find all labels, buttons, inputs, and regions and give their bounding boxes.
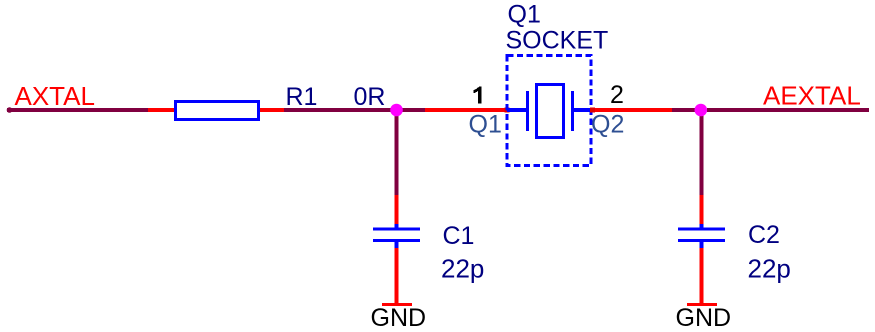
wire: segment into node A <box>284 108 394 112</box>
pin end dot, socket pin 2 <box>590 108 595 113</box>
svg-text:GND: GND <box>676 304 732 332</box>
crystal lead left <box>507 108 527 112</box>
capacitor C2 stub top <box>700 224 704 228</box>
svg-text:22p: 22p <box>748 254 791 284</box>
pin 1 of crystal socket Q1 <box>425 108 507 112</box>
junction node B <box>695 104 708 117</box>
capacitor C1 plate top <box>373 228 420 231</box>
capacitor C1 stub top <box>395 224 399 228</box>
svg-text:C1: C1 <box>443 222 475 250</box>
capacitor C2 plate bottom <box>678 239 725 242</box>
capacitor C2 stub bottom <box>700 242 704 248</box>
wire: AXTAL net, left segment <box>7 108 148 112</box>
pin end dot, socket pin 1 <box>505 108 510 113</box>
pin 1 of capacitor C1 <box>395 195 399 226</box>
wire: node B down <box>700 112 704 195</box>
svg-text:2: 2 <box>610 81 624 109</box>
crystal electrode right <box>571 91 574 131</box>
svg-text:0R: 0R <box>354 83 386 111</box>
resistor R1 body <box>176 102 259 120</box>
wire: node A down <box>395 112 399 195</box>
socket outline (dashed box) <box>507 56 591 166</box>
svg-text:Q2: Q2 <box>591 111 624 139</box>
capacitor C1 stub bottom <box>395 242 399 248</box>
pin 2 of resistor R1 <box>260 108 285 112</box>
wire: node A to socket pin <box>399 108 426 112</box>
wire: node B to AEXTAL <box>707 108 869 112</box>
pin 2 of crystal socket Q1 <box>593 108 672 112</box>
crystal body Q1 <box>537 85 564 138</box>
pin number 1 <box>474 86 482 103</box>
junction node A <box>390 104 403 117</box>
crystal electrode left <box>526 91 529 131</box>
pin 1 of resistor R1 <box>148 108 174 112</box>
svg-text:Q1: Q1 <box>469 111 502 139</box>
svg-text:AXTAL: AXTAL <box>15 81 95 111</box>
svg-text:SOCKET: SOCKET <box>506 27 609 55</box>
svg-text:22p: 22p <box>441 254 484 284</box>
pin 1 of capacitor C2 <box>700 195 704 226</box>
ground bar (left GND) <box>382 303 412 306</box>
ground bar (right GND) <box>687 303 717 306</box>
capacitor C1 plate bottom <box>373 239 420 242</box>
capacitor C2 plate top <box>678 228 725 231</box>
pin 2 of capacitor C1 <box>395 248 399 303</box>
crystal lead right <box>574 108 593 112</box>
svg-text:AEXTAL: AEXTAL <box>763 81 861 111</box>
svg-text:C2: C2 <box>748 221 780 249</box>
svg-text:Q1: Q1 <box>508 1 541 29</box>
pin 2 of capacitor C2 <box>700 248 704 303</box>
svg-text:R1: R1 <box>286 83 318 111</box>
wire: socket pin 2 to node B <box>672 108 695 112</box>
svg-text:GND: GND <box>371 304 427 332</box>
